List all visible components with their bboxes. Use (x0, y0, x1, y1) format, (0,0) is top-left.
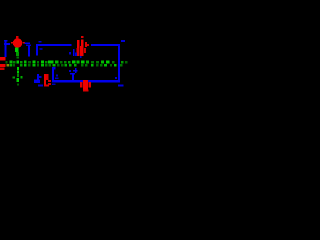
capacitor C1 (probe with plus sign) (69, 68, 78, 81)
current source I1 (red circle) (11, 36, 25, 48)
wire right vertical (118, 44, 120, 83)
wire stub left of source (4, 40, 10, 57)
wire top horizontal left segment (36, 44, 72, 46)
annotation text green row 1 (6, 60, 128, 63)
junction dot right vertical (115, 77, 117, 79)
net label right of left corner vertical (40, 48, 43, 50)
current arrow green below source (13, 48, 23, 86)
wire left corner vertical (36, 44, 38, 56)
resistor R1 (77, 36, 89, 50)
transistor Q1 (blue body) (34, 74, 43, 86)
annotation text green row 2 (6, 64, 122, 67)
wire top horizontal right segment (91, 44, 120, 46)
node label above left corner (39, 41, 42, 43)
wire mid vertical with flag (52, 67, 59, 85)
wire bottom horizontal (52, 80, 120, 83)
wire stub right of source (25, 43, 31, 57)
diode D2 on bottom wire (red) (80, 80, 91, 92)
resistor R1 value label (red cluster below) (77, 46, 86, 56)
net label blue below resistor (69, 49, 82, 58)
diode D1 (red) (44, 74, 51, 87)
node label below bottom-right corner (118, 84, 124, 86)
pin stub red at left edge (0, 57, 6, 60)
node label above right corner (121, 40, 125, 42)
red label at left edge (0, 64, 6, 70)
